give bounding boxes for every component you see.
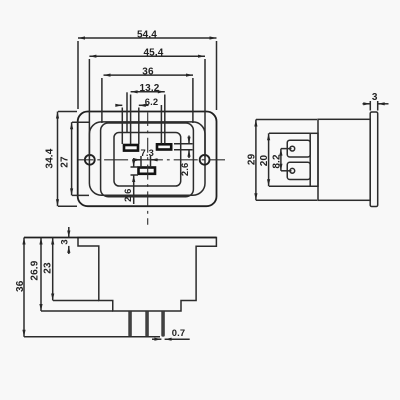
dimension 20: [259, 133, 310, 186]
dimension 2.6 right slot: [174, 136, 193, 177]
dimension 36 bottom: [15, 238, 160, 337]
svg-text:2.6: 2.6: [179, 163, 190, 176]
slot E (bottom contact): [139, 168, 156, 174]
bottom view pin 2: [146, 311, 149, 336]
svg-text:34.4: 34.4: [44, 148, 55, 168]
dimension 27: [60, 122, 89, 195]
dimension 36: [102, 66, 193, 123]
front view inner recess rect: [114, 133, 181, 187]
dimension 2.6 bottom slot: [122, 158, 138, 204]
bottom view pin 3: [162, 311, 165, 336]
front view middle rect A (45.4 opening): [89, 122, 205, 195]
horizontal centerline: [78, 159, 225, 161]
bottom view pin 1: [129, 311, 132, 336]
dimension 34.4: [44, 112, 77, 207]
bottom view body outline: [78, 238, 216, 312]
svg-text:3: 3: [58, 239, 69, 244]
svg-text:8.2: 8.2: [272, 154, 283, 169]
dimension 7.3: [134, 147, 159, 168]
dimension 3 flange thickness: [363, 92, 389, 111]
svg-text:0.7: 0.7: [172, 327, 185, 338]
front view outer flange rect: [78, 112, 217, 207]
svg-text:3: 3: [372, 92, 378, 103]
side view flange: [370, 112, 378, 207]
side view terminal block: [310, 133, 318, 186]
left mounting hole: [85, 155, 95, 165]
dimension 3 plate thickness bottom view: [58, 227, 69, 254]
svg-text:13.2: 13.2: [139, 83, 159, 94]
svg-text:45.4: 45.4: [143, 47, 163, 58]
dimension 54.4: [78, 29, 217, 110]
svg-text:36: 36: [15, 280, 26, 292]
dimension 45.4: [89, 47, 205, 157]
dimension 0.7 pin width: [152, 327, 190, 339]
dimension 29: [247, 120, 317, 201]
front view middle rect B (36 opening): [101, 123, 194, 197]
svg-text:54.4: 54.4: [137, 29, 157, 40]
bottom view flange top edge: [24, 237, 216, 239]
vertical centerline: [147, 113, 149, 225]
svg-text:7.3: 7.3: [141, 147, 154, 158]
svg-text:23: 23: [43, 262, 54, 274]
svg-text:2.6: 2.6: [122, 188, 133, 201]
svg-text:27: 27: [60, 156, 71, 168]
side view lower pin: [287, 162, 310, 179]
side view body: [318, 119, 370, 200]
dimension 13.2: [127, 83, 165, 144]
slot N (top-right contact): [157, 144, 171, 149]
svg-text:29: 29: [247, 153, 258, 165]
dimension 26.9: [29, 238, 113, 312]
dimension 23: [43, 238, 100, 301]
svg-text:6.2: 6.2: [145, 96, 158, 107]
slot L (top-left contact): [124, 145, 138, 151]
svg-text:36: 36: [142, 66, 154, 77]
dimension 6.2: [116, 96, 158, 144]
dimension 8.2: [272, 149, 292, 171]
side view upper pin: [287, 140, 310, 157]
right mounting hole: [200, 155, 210, 165]
svg-text:20: 20: [259, 155, 270, 167]
svg-text:26.9: 26.9: [29, 260, 40, 280]
